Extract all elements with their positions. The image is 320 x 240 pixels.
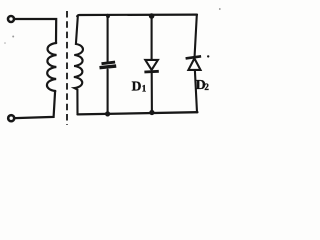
terminal top-left [8, 16, 14, 22]
wire bottom rail [78, 112, 198, 114]
wire top rail [77, 15, 197, 17]
capacitor C branch top wire [107, 15, 109, 62]
speck top right [219, 8, 221, 10]
wire top-left to primary [15, 19, 57, 43]
transformer core (dashed) [66, 11, 68, 125]
primary winding L1 [47, 43, 57, 91]
diode D2 cathode bar [186, 56, 202, 58]
diode D2 branch bottom wire [195, 70, 197, 112]
junction dot capacitor bottom [105, 111, 110, 116]
diode D2 triangle [188, 58, 200, 70]
capacitor C top plate [102, 62, 116, 64]
speck left [12, 36, 14, 38]
junction dot D1 bottom [149, 110, 154, 115]
svg-text:1: 1 [142, 83, 147, 93]
diode D1 branch bottom wire [151, 73, 153, 113]
junction dot D1 top [149, 13, 155, 19]
speck near D2 bar [207, 55, 209, 57]
diode D2 branch top wire [195, 15, 197, 56]
capacitor C branch bottom wire [107, 70, 109, 115]
wire primary bottom to terminal [15, 91, 55, 118]
diode D1 cathode bar [144, 70, 158, 73]
diode D1 triangle [145, 60, 158, 70]
capacitor C bottom plate [100, 66, 117, 68]
speck left lower [4, 42, 6, 44]
terminal bottom-left [8, 115, 14, 121]
junction dot capacitor top [106, 14, 110, 18]
svg-text:D: D [132, 79, 142, 94]
secondary winding L2 [74, 17, 83, 114]
svg-text:2: 2 [204, 82, 209, 92]
diode D1 branch top wire [151, 15, 153, 60]
